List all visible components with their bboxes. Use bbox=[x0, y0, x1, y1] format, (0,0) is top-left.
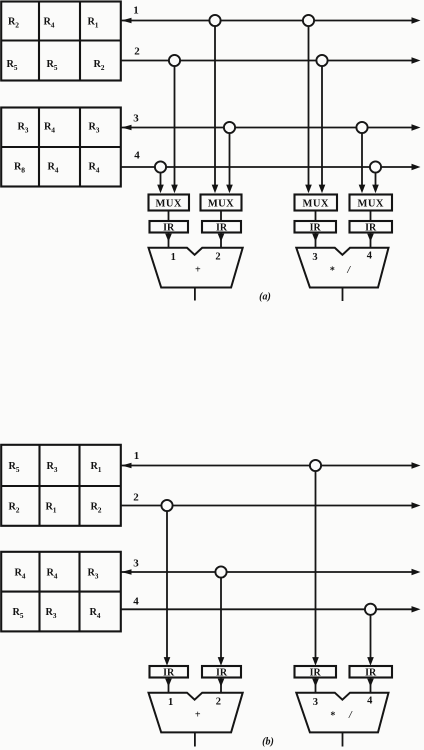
svg-text:3: 3 bbox=[133, 558, 139, 570]
node bus2/IR1 (b) bbox=[161, 500, 172, 511]
wire mul/div output (a) bbox=[342, 288, 344, 302]
wire adder output (a) bbox=[194, 288, 196, 301]
wire IR3 to mul/div pin 3 (a) bbox=[312, 233, 319, 248]
bus 3 (a) bbox=[121, 124, 421, 130]
bus 3 (b) bbox=[121, 569, 421, 575]
wire MUX1 to IR1 (a) bbox=[168, 211, 170, 222]
svg-text:MUX: MUX bbox=[358, 199, 384, 210]
IR2 (a) bbox=[202, 221, 241, 234]
bus 4 (a) bbox=[121, 164, 421, 170]
svg-text:R3: R3 bbox=[87, 568, 98, 581]
wire IR4 to mul/div pin 4 (a) bbox=[367, 233, 374, 248]
svg-text:1: 1 bbox=[133, 5, 139, 17]
svg-text:IR: IR bbox=[365, 223, 377, 234]
register table A1 (a) bbox=[1, 2, 121, 81]
adder functional unit (a) bbox=[149, 248, 243, 288]
multiply/divide functional unit (a) bbox=[296, 248, 388, 288]
node bus1/MUX2 (a) bbox=[209, 15, 220, 26]
svg-text:R8: R8 bbox=[14, 162, 25, 175]
wire IR1 to adder pin 1 (b) bbox=[165, 678, 172, 693]
wire adder output (b) bbox=[194, 732, 196, 746]
IR4 (a) bbox=[350, 221, 393, 234]
svg-text:IR: IR bbox=[310, 223, 322, 234]
wire bus4 to IR4 (b) bbox=[367, 609, 374, 666]
MUX1 (a) bbox=[149, 195, 190, 211]
svg-text:R4: R4 bbox=[88, 162, 99, 175]
svg-text:3: 3 bbox=[313, 697, 318, 708]
svg-text:R3: R3 bbox=[88, 122, 99, 135]
node bus3/MUX4 (a) bbox=[356, 122, 367, 133]
svg-text:MUX: MUX bbox=[208, 199, 234, 210]
wire bus3 to IR2 (b) bbox=[218, 572, 225, 666]
IR2 (b) bbox=[202, 666, 241, 679]
register table A2 (a) bbox=[1, 108, 121, 187]
svg-text:R4: R4 bbox=[43, 17, 54, 30]
MUX4 (a) bbox=[350, 195, 393, 211]
svg-text:R2: R2 bbox=[90, 502, 101, 515]
svg-text:R5: R5 bbox=[6, 59, 17, 72]
multiply/divide functional unit (b) bbox=[296, 693, 388, 733]
svg-text:R5: R5 bbox=[46, 59, 57, 72]
svg-text:R2: R2 bbox=[8, 17, 19, 30]
node bus2/MUX3 (a) bbox=[316, 55, 327, 66]
svg-text:MUX: MUX bbox=[156, 199, 182, 210]
svg-text:R5: R5 bbox=[8, 461, 19, 474]
bus 1 (b) bbox=[121, 462, 421, 468]
svg-text:R1: R1 bbox=[87, 17, 98, 30]
wire bus2 to MUX1 pin B (a) bbox=[171, 61, 178, 194]
svg-text:(b): (b) bbox=[262, 737, 274, 748]
svg-text:R1: R1 bbox=[90, 461, 101, 474]
wire MUX2 to IR2 (a) bbox=[220, 211, 222, 222]
svg-text:IR: IR bbox=[163, 668, 175, 679]
wire bus2 to MUX3 pin B (a) bbox=[319, 61, 326, 194]
wire bus2 to IR1 (b) bbox=[164, 506, 171, 666]
bus 2 (b) bbox=[121, 502, 421, 508]
svg-text:R3: R3 bbox=[45, 607, 56, 620]
IR1 (a) bbox=[150, 221, 189, 234]
svg-text:MUX: MUX bbox=[303, 199, 329, 210]
svg-text:*: * bbox=[330, 266, 335, 277]
svg-text:2: 2 bbox=[133, 492, 139, 504]
wire IR2 to adder pin 2 (b) bbox=[218, 678, 225, 693]
svg-text:R4: R4 bbox=[14, 568, 25, 581]
IR1 (b) bbox=[150, 666, 189, 679]
svg-text:IR: IR bbox=[365, 668, 377, 679]
svg-text:2: 2 bbox=[134, 46, 140, 58]
svg-text:R4: R4 bbox=[89, 607, 100, 620]
wire MUX4 to IR4 (a) bbox=[370, 211, 372, 222]
node bus2/MUX1 (a) bbox=[169, 55, 180, 66]
register table B1 (b) bbox=[1, 445, 121, 526]
bus 4 (b) bbox=[121, 606, 421, 612]
svg-text:IR: IR bbox=[163, 223, 175, 234]
svg-text:R2: R2 bbox=[93, 59, 104, 72]
wire bus4 to MUX1 pin A (a) bbox=[157, 167, 164, 193]
register table B2 (b) bbox=[1, 552, 121, 632]
svg-text:1: 1 bbox=[171, 252, 176, 263]
svg-text:R3: R3 bbox=[46, 461, 57, 474]
wire MUX3 to IR3 (a) bbox=[315, 211, 317, 222]
node bus4/MUX4 (a) bbox=[370, 161, 381, 172]
svg-text:(a): (a) bbox=[259, 292, 271, 303]
svg-text:R3: R3 bbox=[17, 122, 28, 135]
svg-text:IR: IR bbox=[216, 668, 228, 679]
svg-text:2: 2 bbox=[215, 252, 220, 263]
svg-text:IR: IR bbox=[216, 223, 228, 234]
svg-text:1: 1 bbox=[168, 697, 173, 708]
svg-text:+: + bbox=[195, 265, 201, 276]
svg-text:4: 4 bbox=[133, 596, 139, 608]
MUX3 (a) bbox=[295, 195, 338, 211]
node bus4/IR4 (b) bbox=[365, 604, 376, 615]
svg-text:3: 3 bbox=[133, 113, 139, 125]
node bus1/MUX3 (a) bbox=[303, 15, 314, 26]
wire mul/div output (b) bbox=[342, 732, 344, 746]
node bus3/IR2 (b) bbox=[215, 566, 226, 577]
svg-text:R4: R4 bbox=[44, 122, 55, 135]
IR4 (b) bbox=[350, 666, 393, 679]
wire bus1 to MUX3 pin A (a) bbox=[305, 21, 312, 194]
svg-text:4: 4 bbox=[134, 150, 140, 162]
IR3 (b) bbox=[295, 666, 337, 679]
adder functional unit (b) bbox=[149, 693, 243, 733]
wire IR4 to mul/div pin 4 (b) bbox=[367, 678, 374, 693]
MUX2 (a) bbox=[201, 195, 242, 211]
svg-text:1: 1 bbox=[134, 450, 140, 462]
wire bus1 to IR3 (b) bbox=[312, 466, 319, 666]
svg-text:4: 4 bbox=[367, 251, 373, 262]
wire IR2 to adder pin 2 (a) bbox=[218, 233, 225, 248]
IR3 (a) bbox=[295, 221, 337, 234]
svg-text:+: + bbox=[195, 710, 201, 721]
svg-text:R1: R1 bbox=[45, 502, 56, 515]
svg-text:*: * bbox=[330, 711, 335, 722]
wire bus1 to MUX2 pin A (a) bbox=[212, 21, 219, 194]
svg-text:R2: R2 bbox=[8, 502, 19, 515]
svg-text:3: 3 bbox=[312, 252, 317, 263]
svg-text:IR: IR bbox=[310, 668, 322, 679]
wire bus4 to MUX4 pin B (a) bbox=[372, 167, 379, 193]
wire IR1 to adder pin 1 (a) bbox=[165, 233, 172, 248]
svg-text:R5: R5 bbox=[12, 607, 23, 620]
node bus4/MUX1 (a) bbox=[155, 161, 166, 172]
bus 1 (a) bbox=[121, 17, 421, 23]
node bus1/IR3 (b) bbox=[310, 460, 321, 471]
wire bus3 to MUX2 pin B (a) bbox=[226, 128, 233, 194]
node bus3/MUX2 (a) bbox=[224, 122, 235, 133]
svg-text:R4: R4 bbox=[47, 162, 58, 175]
svg-text:2: 2 bbox=[216, 697, 221, 708]
svg-text:R4: R4 bbox=[46, 568, 57, 581]
svg-text:4: 4 bbox=[367, 696, 373, 707]
bus 2 (a) bbox=[121, 57, 421, 63]
wire bus3 to MUX4 pin A (a) bbox=[359, 128, 366, 194]
wire IR3 to mul/div pin 3 (b) bbox=[312, 678, 319, 693]
